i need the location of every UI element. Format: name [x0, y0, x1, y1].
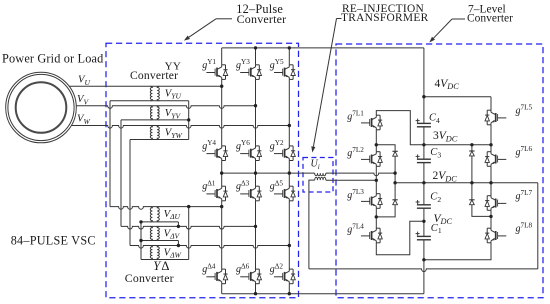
wire leg collector Y6 [255, 106, 257, 146]
transformer VYV primary winding [150, 106, 152, 120]
igbt g^7L8 (mirrored) [485, 228, 506, 243]
wire vertical A phase-U link down to delta row [109, 101, 111, 207]
igbt g^Delta3 [240, 186, 261, 201]
svg-text:Power Grid or Load: Power Grid or Load [2, 51, 103, 65]
pointer line to 7-level box [452, 18, 465, 20]
capacitor C3 [416, 154, 431, 162]
transformer VYU primary winding [150, 86, 152, 101]
svg-text:Converter: Converter [237, 12, 287, 26]
wire leg 7L1 to node [375, 130, 377, 145]
svg-text:Converter: Converter [467, 13, 513, 25]
wire top bus drop to 4VDC node [423, 48, 425, 97]
wire leg 7L3 [375, 180, 377, 193]
wire leg emitter Delta2 to bottom bus [288, 284, 290, 294]
svg-text:Converter: Converter [125, 271, 174, 285]
wire leg collector Delta6 [255, 226, 257, 269]
wire leg emitter Delta1 to delta phase node [221, 201, 223, 207]
wire YY primary W return to vertical C [130, 139, 189, 141]
svg-text:Converter: Converter [130, 69, 178, 82]
wire leg collector Y1 [221, 48, 223, 65]
wire leg emitter Y6 to mid bus [255, 161, 257, 174]
wire mid bus YY- / Delta+ toward re-injection transformer [222, 172, 315, 174]
igbt g^7L3 [361, 194, 382, 209]
capacitor C1 [416, 232, 431, 240]
wire phase VV from grid to leg2 node [41, 106, 256, 109]
wire re-injection return row to far right [309, 269, 538, 272]
wire delta row W to leg3 [130, 246, 289, 249]
wire leg collector Y5 [288, 48, 290, 65]
wire 2VDC row from left diode string to far right [395, 182, 538, 184]
wire leg emitter Y4 to mid bus [221, 161, 223, 174]
igbt g^Y3 [240, 65, 261, 80]
wire top DC bus of 12-pulse converter [222, 47, 424, 49]
transformer VYW secondary winding [157, 126, 159, 140]
re-injection transformer Ui dashed box [303, 158, 333, 193]
wire YY primary U return to vertical A [110, 100, 189, 102]
power grid / load machine symbol [6, 72, 77, 143]
wire left diode string bottom to 7L3/7L4 node [376, 205, 395, 217]
diode right string upper [471, 145, 473, 151]
transformer VYV secondary winding [157, 106, 159, 120]
wire left node to diode string top [376, 145, 395, 152]
wire leg collector Y4 [221, 86, 223, 146]
re-injection transformer bottom winding [315, 177, 326, 180]
wire YDelta primary neutral vertical D [140, 222, 142, 260]
wire left diode string middle [394, 156, 396, 200]
wire leg collector Delta1 [221, 173, 223, 186]
igbt g^Y2 [274, 146, 295, 161]
igbt g^Delta1 [206, 186, 227, 201]
pointer line to Ui transformer box [337, 18, 342, 20]
igbt g^7L2 [361, 152, 382, 167]
transformer VYW primary winding [150, 126, 152, 140]
wire phase VW from grid to leg3 node [41, 126, 289, 129]
wire far right vertical return to 2VDC row [537, 183, 539, 269]
wire leg 7L8 and bottom to 0V row [490, 216, 492, 228]
wire vertical C phase-W link down [129, 140, 131, 246]
wire capacitor chain bus [423, 97, 425, 124]
wire YDelta secondary U bottom row [141, 221, 178, 223]
wire bottom winding left end down to return row [309, 180, 315, 269]
wire leg 7L2 [375, 145, 377, 152]
wire leg 7L4 and bottom routing to VDC node [375, 217, 377, 228]
wire leg emitter Y2 to mid bus [288, 161, 290, 174]
transformer VDeltaV secondary winding [157, 226, 159, 240]
svg-text:TRANSFORMER: TRANSFORMER [341, 12, 429, 24]
wire YDelta secondary W bottom row [141, 259, 189, 261]
capacitor C4 [416, 119, 431, 127]
igbt g^7L6 (mirrored) [485, 152, 506, 167]
igbt g^Y1 [206, 65, 227, 80]
7-level converter dashed boundary box [336, 44, 543, 298]
wire leg emitter Delta6 to bottom bus [255, 284, 257, 294]
wire mid bus after top winding to left diode string [326, 173, 395, 176]
wire YY primary V return to vertical B [121, 119, 189, 121]
wire right diode string middle [471, 156, 473, 200]
wire right diode string bottom to 7L7/7L8 node [472, 205, 491, 217]
svg-text:84–PULSE VSC: 84–PULSE VSC [11, 234, 96, 248]
transformer VDeltaW secondary winding [157, 246, 159, 260]
transformer VDeltaU secondary winding [157, 207, 159, 222]
transformer VDeltaU primary winding [150, 207, 152, 222]
wire leg emitter Delta4 to bottom bus [221, 284, 223, 294]
wire leg emitter Delta5 to delta phase node [288, 201, 290, 246]
igbt g^Y6 [240, 146, 261, 161]
wire leg emitter Y1 to phase node [221, 80, 223, 87]
igbt g^7L7 (mirrored) [485, 196, 506, 211]
wire leg 7L6 [490, 145, 492, 152]
wire delta series link U-V [177, 222, 179, 227]
transformer VDeltaW primary winding [150, 246, 152, 260]
wire leg emitter Delta3 to delta phase node [255, 201, 257, 227]
wire leg collector Delta2 [288, 246, 290, 270]
igbt g^Delta5 [274, 186, 295, 201]
capacitor C2 [416, 200, 431, 208]
pointer line to 12-pulse box [216, 18, 232, 20]
wire phase VU from grid to YY transformer and leg1 node [41, 85, 222, 87]
transformer VYU secondary winding [157, 86, 159, 101]
igbt g^Delta6 [240, 269, 261, 284]
diode left string lower [392, 200, 397, 205]
wire leg collector Delta5 [288, 173, 290, 186]
diode left string upper [392, 151, 397, 156]
wire delta series link V-W [177, 241, 179, 246]
re-injection transformer top winding [315, 173, 326, 176]
wire bottom winding right end to left leg midpoint [326, 179, 377, 181]
igbt g^Delta2 [274, 269, 295, 284]
wire leg 7L7 [490, 183, 492, 196]
igbt g^Y4 [206, 146, 227, 161]
wire delta row V to leg2 [121, 226, 256, 229]
wire YY secondary neutral vertical [188, 101, 190, 140]
igbt g^Delta4 [206, 269, 227, 284]
wire delta ring closing vertical to row U [188, 207, 190, 260]
wire delta row U to leg1 [110, 207, 222, 210]
wire leg collector Delta4 [221, 207, 223, 269]
wire 4VDC node to right leg top [424, 96, 491, 98]
12-pulse converter dashed boundary box [106, 43, 299, 297]
wire leg collector Y2 [288, 126, 290, 146]
wire leg emitter Y5 to phase node [288, 80, 290, 126]
igbt g^Y5 [274, 65, 295, 80]
wire YDelta secondary V bottom row [141, 240, 178, 242]
wire 3VDC row to right branch [424, 144, 491, 146]
wire leg collector Y3 [255, 48, 257, 65]
igbt g^7L5 (mirrored) [485, 110, 506, 125]
igbt g^7L4 [361, 228, 382, 243]
wire bottom bus rise to C1 bottom node [423, 260, 425, 294]
igbt g^7L1 [361, 115, 382, 130]
diode right string lower [469, 200, 474, 205]
transformer VDeltaV primary winding [150, 226, 152, 240]
wire leg emitter Y3 to phase node [255, 80, 257, 106]
wire bottom bus of delta bridge [222, 293, 424, 295]
wire leg 7L5 to 3VDC node [490, 125, 492, 145]
wire vertical B phase-V link down [120, 120, 122, 226]
wire 7L1 collector routing to 3VDC [376, 111, 424, 145]
wire leg collector Delta3 [255, 173, 257, 186]
